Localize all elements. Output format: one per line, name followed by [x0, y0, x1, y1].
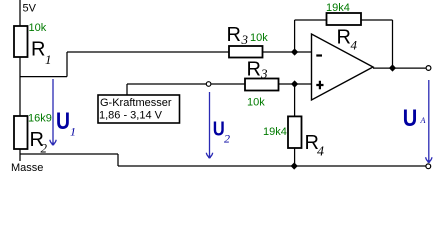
svg-text:A: A [420, 116, 426, 125]
svg-text:3: 3 [241, 32, 249, 47]
resistor R2 [14, 116, 28, 149]
svg-text:3: 3 [260, 66, 268, 81]
wire R1 bottom to R2 top [19, 57, 21, 116]
junction node noninverting input [291, 80, 298, 87]
box G-Kraftmesser [98, 95, 180, 123]
junction node ground [291, 162, 298, 169]
wire R3a to inverting input [263, 51, 312, 53]
svg-text:19k4: 19k4 [326, 2, 350, 14]
svg-text:2: 2 [224, 132, 230, 146]
wire ground right [118, 165, 426, 167]
op-amp U1 [312, 34, 374, 100]
voltage arrow UA [428, 80, 430, 161]
wire terminal to R3b [211, 83, 245, 85]
wire ground left [20, 153, 118, 155]
svg-text:1: 1 [70, 125, 76, 139]
wire top net to R3a [67, 51, 229, 53]
resistor R3 (top) [229, 46, 263, 58]
junction node output [389, 64, 396, 71]
svg-text:2: 2 [41, 141, 48, 156]
svg-text:R: R [337, 27, 351, 49]
svg-text:10k: 10k [250, 32, 268, 44]
wire divider node horizontal [20, 76, 67, 78]
svg-text:4: 4 [351, 38, 358, 53]
wire feedback top right [361, 19, 393, 21]
resistor R4 (ground leg) [288, 116, 302, 148]
svg-text:U: U [56, 108, 70, 135]
wire R3b to noninverting input [279, 83, 312, 85]
svg-text:U: U [213, 119, 225, 141]
svg-text:G-Kraftmesser: G-Kraftmesser [100, 97, 172, 109]
resistor R4 (feedback) [327, 13, 362, 25]
svg-text:10k: 10k [247, 97, 265, 109]
terminal output (open circle) [426, 66, 431, 71]
terminal ground right (open circle) [426, 164, 431, 169]
voltage arrow U2 [209, 92, 211, 156]
wire feedback riser up [294, 20, 296, 52]
svg-text:19k4: 19k4 [263, 126, 287, 138]
svg-text:R: R [227, 24, 241, 46]
wire G-box to input terminal [127, 83, 206, 85]
wire R4b to ground [294, 148, 296, 166]
junction node inverting input [291, 48, 298, 55]
svg-text:1: 1 [45, 52, 52, 67]
svg-text:Masse: Masse [11, 162, 43, 174]
wire R2 bottom to ground [19, 149, 21, 154]
svg-text:5V: 5V [23, 3, 37, 15]
svg-text:1,86 - 3,14 V: 1,86 - 3,14 V [99, 110, 163, 122]
svg-text:10k: 10k [29, 22, 47, 34]
svg-text:U: U [403, 105, 418, 132]
svg-text:16k9: 16k9 [28, 113, 52, 125]
resistor R3 (bottom) [245, 79, 279, 91]
svg-text:4: 4 [317, 145, 324, 160]
wire ground step [117, 154, 119, 166]
Masse tick [19, 154, 21, 161]
voltage arrow U1 [52, 79, 54, 143]
wire feedback down to output [392, 20, 394, 68]
resistor R1 [14, 26, 28, 57]
wire op-amp output [373, 67, 426, 69]
terminal input (open circle) [206, 82, 211, 87]
wire feedback top left [295, 19, 327, 21]
op-amp minus sign [316, 54, 322, 56]
wire riser to top net [66, 52, 68, 77]
op-amp plus sign [316, 81, 323, 89]
wire 5V to R1 top [19, 0, 21, 26]
svg-text:R: R [247, 59, 261, 81]
wire noninverting node down to R4b [294, 84, 296, 116]
svg-text:R: R [31, 39, 45, 61]
wire G-box riser [126, 84, 128, 95]
